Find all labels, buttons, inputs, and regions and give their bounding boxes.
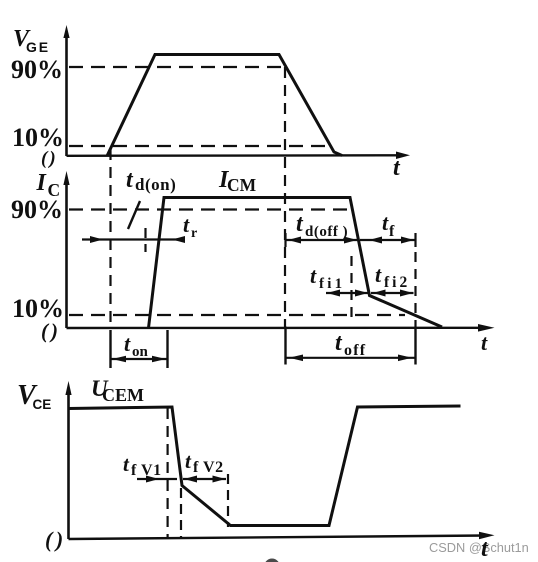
dimension t_fi2: [371, 290, 414, 297]
top plot V_GE : y-axis: [63, 25, 69, 156]
label t_fi2: [375, 262, 410, 291]
label t_fV1: [123, 452, 162, 479]
label I_C: [36, 170, 61, 200]
label t_d(off): [296, 211, 348, 240]
bottom plot V_CE : y-axis: [65, 381, 71, 539]
dimension t_fV2: [183, 476, 226, 483]
middle plot x-axis t: [67, 324, 495, 332]
dimension t_off: [285, 327, 416, 365]
label U_CEM: [91, 376, 144, 405]
svg-text:I: I: [36, 170, 48, 196]
svg-text:off: off: [344, 342, 366, 359]
dimension t_on: [111, 330, 168, 368]
svg-text:t: t: [382, 210, 389, 235]
svg-text:t: t: [335, 330, 343, 356]
svg-text:d(off ): d(off ): [305, 224, 348, 240]
top plot x-axis t: [67, 152, 411, 160]
svg-text:r: r: [191, 226, 197, 241]
svg-text:t: t: [310, 263, 317, 288]
bottom plot x-axis t: [69, 532, 495, 540]
label t_fV2: [185, 449, 224, 476]
svg-text:CEM: CEM: [102, 385, 144, 405]
dashed vertical guide x=285 (turn-off start): [284, 67, 286, 328]
dashed vertical x=228 (end of t_fV2): [227, 474, 229, 527]
label V_CE: [17, 380, 51, 412]
svg-text:t: t: [124, 331, 131, 356]
90% dashed level (middle): [69, 208, 352, 210]
svg-text:t: t: [393, 155, 401, 181]
svg-text:t: t: [123, 452, 130, 476]
svg-text:t: t: [183, 212, 190, 237]
dashed vertical guide x=110 (turn-on start): [109, 149, 111, 328]
svg-text:(): (): [41, 148, 58, 169]
V_GE waveform: [107, 55, 342, 157]
label t_f: [382, 210, 395, 240]
svg-text:t: t: [375, 262, 382, 287]
dimension t_d(on)+t_r row: [82, 236, 185, 243]
dimension t_fV1: [137, 476, 177, 483]
label t_on: [124, 331, 149, 360]
svg-text:GE: GE: [26, 39, 50, 55]
svg-text:(): (): [45, 527, 67, 552]
svg-text:90%: 90%: [11, 55, 63, 84]
dashed vertical x=181 (fV1/fV2 boundary): [180, 488, 182, 538]
svg-text:CSDN @Schut1n: CSDN @Schut1n: [429, 540, 529, 555]
svg-text:f V2: f V2: [193, 459, 224, 476]
leader slash for t_d(on): [128, 201, 140, 229]
label t_r: [183, 212, 197, 241]
label V_GE: [13, 26, 50, 55]
90% dashed level (top): [69, 66, 283, 68]
svg-text:fi2: fi2: [384, 274, 410, 291]
svg-text:CM: CM: [227, 175, 257, 195]
svg-text:d(on): d(on): [135, 175, 176, 194]
label t_d(on): [126, 167, 176, 194]
dashed vertical x=167.6 (V_CE fall start): [167, 408, 169, 538]
svg-text:90%: 90%: [11, 195, 63, 224]
svg-text:t: t: [185, 449, 192, 473]
dashed vertical x=415.5 (end of tail current): [414, 252, 416, 328]
I_C waveform: [149, 198, 443, 329]
svg-text:on: on: [132, 344, 149, 360]
svg-text:t: t: [481, 330, 488, 355]
V_CE waveform: [69, 406, 461, 526]
label t_off: [335, 330, 366, 359]
cut-off figure label at bottom edge: [264, 559, 280, 562]
label I_CM: [218, 167, 257, 195]
dimension t_fi1: [326, 290, 369, 297]
svg-text:t: t: [296, 211, 304, 237]
svg-text:(): (): [41, 319, 61, 343]
middle plot I_C : y-axis: [63, 171, 69, 328]
dimension t_d(off): [285, 233, 358, 247]
10% dashed level (top): [69, 145, 332, 147]
short dashed vertical x=351 (10% fall point): [350, 256, 352, 322]
svg-text:fi1: fi1: [319, 276, 345, 292]
svg-text:f: f: [389, 223, 395, 240]
dimension t_f: [360, 233, 416, 247]
svg-text:CE: CE: [33, 397, 52, 412]
label t_fi1: [310, 263, 345, 292]
10% dashed level (middle): [69, 314, 405, 316]
short dashed tick x=145.5 (10% rise point): [144, 228, 146, 252]
svg-text:t: t: [126, 167, 134, 193]
